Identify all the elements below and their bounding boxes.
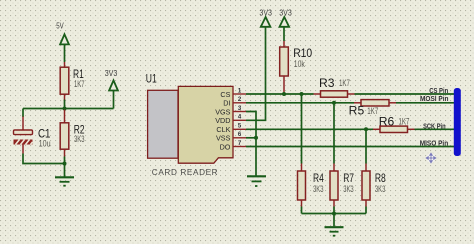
svg-text:VSS: VSS (216, 134, 231, 143)
svg-text:R5: R5 (349, 104, 365, 118)
wire R4 bottom (301, 207, 303, 214)
power 3V3 label (top, R10) (279, 8, 292, 17)
svg-text:3V3: 3V3 (105, 69, 118, 78)
wire VGS (pin 3) down (246, 112, 256, 176)
terminal strip (blue bus bar) (454, 88, 461, 156)
resistor R5 (349, 100, 396, 118)
svg-text:10k: 10k (294, 59, 305, 69)
svg-text:1K7: 1K7 (399, 117, 410, 127)
power 3V3 arrow (left) (109, 80, 118, 108)
wire R3 to CS Pin (355, 93, 455, 95)
svg-text:1K7: 1K7 (367, 106, 378, 116)
svg-text:DI: DI (223, 99, 230, 108)
wire R7 bottom (333, 207, 335, 214)
wire C1 bottom to ground rail (23, 154, 65, 164)
svg-text:DO: DO (220, 142, 231, 151)
node MOSI Pin (420, 96, 449, 103)
power 3V3 label (top, VDD) (259, 8, 272, 17)
resistor R10 (280, 41, 313, 93)
wire VSS (pin 6) (246, 137, 256, 139)
power 3V3 arrow (top, VDD) (261, 17, 271, 27)
svg-text:5V: 5V (56, 22, 64, 31)
svg-text:VDD: VDD (215, 116, 230, 125)
U1 card reader body (178, 86, 233, 163)
svg-text:CS: CS (220, 90, 230, 99)
node SCK Pin (423, 123, 446, 130)
power 3V3 label (left) (105, 69, 118, 78)
svg-text:CARD READER: CARD READER (152, 168, 218, 177)
power 5V label (56, 22, 64, 31)
wire CLK node down to R8 (365, 129, 367, 163)
svg-text:CS Pin: CS Pin (429, 88, 448, 95)
wire R1 to junction (64, 100, 66, 110)
junction R4/CS (300, 92, 304, 96)
junction R7/DI (332, 101, 336, 105)
svg-text:3K3: 3K3 (313, 184, 324, 194)
svg-text:3K3: 3K3 (74, 134, 85, 144)
wire CS (pin 1) (246, 93, 314, 95)
svg-text:10u: 10u (39, 139, 51, 149)
capacitor C1 (14, 117, 51, 154)
wire R2 bottom (64, 157, 66, 164)
resistor R1 (60, 62, 84, 101)
svg-text:MISO Pin: MISO Pin (420, 141, 449, 148)
wire CLK (pin 5) (246, 128, 373, 130)
power 3V3 arrow (top, R10) (280, 17, 290, 41)
resistor R2 (60, 110, 85, 157)
wire VDD (pin 4) to 3V3 (246, 27, 266, 121)
wire top horizontal rail (23, 108, 114, 110)
wire DI (pin 2) (246, 102, 354, 104)
node CS Pin (429, 88, 448, 95)
U1 pin stubs (233, 94, 246, 147)
junction R10/CS (282, 92, 286, 96)
cursor crosshair (426, 153, 436, 163)
wire R5 to MOSI Pin (396, 102, 455, 104)
resistor R6 (373, 115, 415, 133)
IC U1 reference label (146, 71, 157, 85)
U1 value label CARD READER (152, 168, 218, 177)
svg-text:VGS: VGS (215, 107, 230, 116)
svg-text:U1: U1 (146, 71, 157, 85)
wire R10 to CS line (283, 93, 285, 95)
svg-text:1K7: 1K7 (74, 79, 85, 89)
svg-text:R4: R4 (313, 171, 324, 185)
wire bottom rail (302, 213, 367, 215)
junction at R1 bottom (63, 107, 67, 111)
wire R8 bottom (365, 207, 367, 214)
svg-text:1K7: 1K7 (339, 78, 350, 88)
svg-text:R3: R3 (319, 76, 335, 90)
wire CS node down to R4 (301, 94, 303, 164)
svg-text:3K3: 3K3 (375, 184, 386, 194)
resistor R7 (330, 164, 354, 207)
wire to C1 top (22, 109, 24, 118)
node MISO Pin (420, 141, 449, 148)
svg-text:3V3: 3V3 (279, 8, 292, 17)
wire R6 to SCK Pin (415, 128, 455, 130)
svg-text:3K3: 3K3 (343, 184, 354, 194)
wire DI node down to R7 (333, 103, 335, 164)
svg-text:SCK Pin: SCK Pin (423, 123, 446, 130)
svg-text:R7: R7 (343, 171, 354, 185)
junction VSS (254, 136, 258, 140)
resistor R4 (298, 164, 325, 207)
wire DO (pin 7) to MISO Pin (246, 146, 455, 148)
svg-text:R8: R8 (375, 171, 386, 185)
power 5V arrow (60, 34, 69, 62)
resistor R8 (362, 164, 386, 207)
ground (bottom) (325, 214, 344, 237)
svg-text:MOSI Pin: MOSI Pin (420, 96, 449, 103)
junction at ground rail (63, 162, 67, 166)
junction bottom rail (332, 212, 336, 216)
junction R8/CLK (364, 127, 368, 131)
U1 card slot (grey) (148, 90, 178, 158)
ground (VSS) (247, 176, 266, 187)
ground (left) (55, 164, 74, 187)
U1 pin numbers (238, 88, 242, 146)
resistor R3 (314, 76, 355, 97)
svg-text:R6: R6 (379, 115, 395, 129)
U1 pin names (215, 90, 231, 152)
